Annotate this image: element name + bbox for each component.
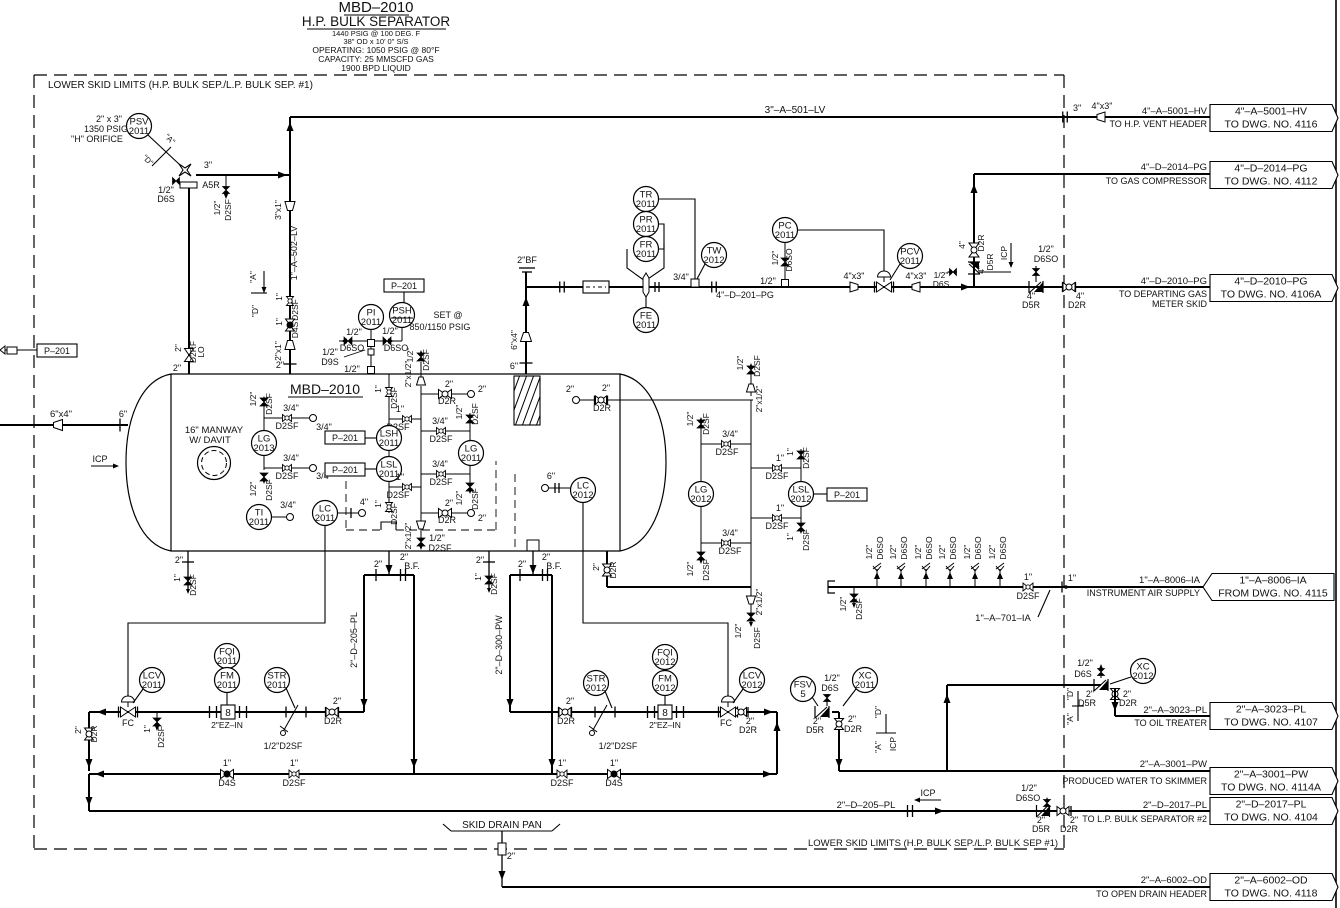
svg-text:D6S: D6S xyxy=(933,279,950,289)
drain 1/2in D2SF on PSV outlet xyxy=(225,175,227,196)
class break A/D marks xyxy=(263,271,265,293)
svg-text:1/2": 1/2" xyxy=(987,545,997,560)
svg-text:2011: 2011 xyxy=(461,453,481,464)
flange 6in at vessel gas nozzle xyxy=(520,362,533,364)
svg-text:D6SO: D6SO xyxy=(998,536,1008,560)
air takeoff 1/2in D6SO #2 xyxy=(900,569,902,587)
control valve LCV 2012 xyxy=(718,707,720,718)
cross row 1in D2SF lower xyxy=(389,486,421,488)
svg-text:D2SF: D2SF xyxy=(275,471,299,481)
svg-text:1": 1" xyxy=(558,758,566,768)
instrument LG 2013 xyxy=(252,431,277,456)
flange pair on 205-PL xyxy=(907,805,909,817)
instrument LC 2012 xyxy=(542,485,549,492)
thermowell TW connection 3/4in xyxy=(691,279,699,287)
pipe produced water y771 xyxy=(839,770,1210,772)
valve 1in D2SF top x389 xyxy=(386,388,393,397)
valve 1/2in D2SF below LG2011 xyxy=(469,466,471,493)
flange 2in at vessel nozzle xyxy=(284,363,297,365)
instrument LCV 2011 xyxy=(140,668,165,693)
svg-text:B.F.: B.F. xyxy=(546,561,562,571)
instrument FQI 2011 xyxy=(215,644,240,669)
pipe riser 4in x974 xyxy=(973,174,975,287)
pipe 2in-D-205-PL down leg x364 xyxy=(363,575,365,712)
svg-text:2"EZ–IN: 2"EZ–IN xyxy=(211,720,243,730)
svg-text:2": 2" xyxy=(445,498,453,508)
svg-text:D6S: D6S xyxy=(1074,669,1092,679)
BF header left xyxy=(364,574,414,576)
svg-text:1"–A–502–LV: 1"–A–502–LV xyxy=(289,226,299,281)
svg-text:TO H.P. VENT HEADER: TO H.P. VENT HEADER xyxy=(1109,119,1207,129)
svg-text:2": 2" xyxy=(602,383,610,393)
check valve 4in D5R xyxy=(1029,281,1043,293)
svg-text:D5R: D5R xyxy=(806,725,825,735)
svg-text:D4S: D4S xyxy=(218,778,236,788)
svg-text:2011: 2011 xyxy=(217,656,237,667)
air takeoff 1/2in D6SO #6 xyxy=(999,569,1001,587)
instrument FQI 2012 xyxy=(653,645,678,670)
svg-text:D2SF: D2SF xyxy=(470,488,480,510)
box P-201 to LSL2012 xyxy=(813,493,827,495)
valve 1in D2SF bottom x389 xyxy=(386,503,393,512)
air header 1in-A-701-IA xyxy=(828,586,1210,588)
standpipe LG 2013 xyxy=(263,398,265,431)
svg-text:D5R: D5R xyxy=(1022,300,1041,310)
svg-text:D2SF: D2SF xyxy=(282,778,306,788)
pipe drop to 3023-PL xyxy=(1114,688,1116,716)
skid limit border top xyxy=(34,74,1064,76)
instrument LCV 2012 xyxy=(740,668,765,693)
pipe 2in-D-300-PW down leg x510 xyxy=(509,575,511,712)
valve 1in D2SF above LSL2012 xyxy=(800,449,802,482)
svg-text:1/2": 1/2" xyxy=(405,348,415,363)
gauge valve block xyxy=(368,340,375,347)
instrument TI 2011 xyxy=(247,505,272,530)
instrument TW 2012 xyxy=(702,243,727,268)
instrument LSH 2011 xyxy=(377,426,402,451)
svg-text:D6SO: D6SO xyxy=(899,536,909,560)
svg-text:D6SO: D6SO xyxy=(924,536,934,560)
standpipe LG2012 left x701 xyxy=(700,420,702,482)
valve 1in D2SF on air header xyxy=(1023,583,1033,591)
svg-text:1": 1" xyxy=(396,404,404,414)
svg-text:8: 8 xyxy=(225,708,231,719)
flange pair on D-201-PG xyxy=(559,282,561,293)
corner x89 down xyxy=(88,712,90,771)
class break A/D diagonal ticks xyxy=(152,147,171,166)
svg-text:1/2": 1/2" xyxy=(1077,658,1093,668)
PSV inlet diagonal xyxy=(148,135,180,165)
drain 1/2in D2SF below x701 xyxy=(700,543,702,558)
svg-text:2012: 2012 xyxy=(741,680,762,691)
svg-text:1": 1" xyxy=(373,500,383,508)
svg-text:6": 6" xyxy=(510,361,518,371)
pipe open drain y887 xyxy=(502,886,1210,888)
svg-text:2": 2" xyxy=(175,555,183,565)
svg-text:2012: 2012 xyxy=(585,683,606,694)
flange pair before PC tap xyxy=(711,282,713,293)
svg-text:2011: 2011 xyxy=(249,517,269,528)
flag 4in-A-5001-HV TO DWG NO 4116 xyxy=(1210,105,1338,132)
valve 2in D2R right head drain xyxy=(606,551,608,587)
row 1in D2SF upper LSL2012 xyxy=(751,467,801,469)
svg-text:PRODUCED WATER TO SKIMMER: PRODUCED WATER TO SKIMMER xyxy=(1062,776,1207,786)
svg-text:A5R: A5R xyxy=(202,180,220,190)
flow arrow up at 501-LV corner xyxy=(287,122,294,131)
svg-text:"A": "A" xyxy=(1065,713,1075,725)
svg-text:1/2": 1/2" xyxy=(429,533,445,543)
svg-text:D2R: D2R xyxy=(1068,300,1087,310)
svg-text:3/4": 3/4" xyxy=(432,416,448,426)
control valve PCV 2011 xyxy=(874,282,876,293)
svg-text:D2SF: D2SF xyxy=(428,543,452,553)
valve 1/2in D6SO right xyxy=(383,337,391,345)
svg-text:2"–A–6002–OD: 2"–A–6002–OD xyxy=(1141,875,1207,886)
svg-text:3/4": 3/4" xyxy=(283,453,299,463)
svg-text:3/4": 3/4" xyxy=(280,500,296,510)
svg-text:"D": "D" xyxy=(1065,688,1075,700)
flow straightener xyxy=(583,281,609,293)
svg-text:1": 1" xyxy=(396,472,404,482)
svg-text:2": 2" xyxy=(445,379,453,389)
svg-text:2"–D–2017–PL: 2"–D–2017–PL xyxy=(1236,799,1307,811)
svg-text:D2R: D2R xyxy=(557,716,576,726)
box P-201 to LSL xyxy=(325,463,365,476)
svg-text:2"–D–300–PW: 2"–D–300–PW xyxy=(494,615,504,675)
reducer 6x4 inlet xyxy=(54,420,63,431)
instrument XC 2011 xyxy=(853,668,878,693)
svg-text:TO GAS COMPRESSOR: TO GAS COMPRESSOR xyxy=(1106,176,1208,186)
svg-text:D6SO: D6SO xyxy=(875,536,885,560)
instrument PI 2011 xyxy=(359,305,384,330)
svg-text:6"x4": 6"x4" xyxy=(50,409,72,420)
vessel MBD-2010 shell xyxy=(126,374,666,551)
svg-text:"H" ORIFICE: "H" ORIFICE xyxy=(71,134,123,144)
svg-text:850/1150 PSIG: 850/1150 PSIG xyxy=(410,322,471,332)
svg-text:6"x4": 6"x4" xyxy=(509,330,519,350)
pipe right leg x414 to drain header xyxy=(413,575,415,774)
svg-text:D2SF: D2SF xyxy=(1016,591,1040,601)
valve 1in D4S left xyxy=(221,770,234,779)
svg-text:1/2": 1/2" xyxy=(1038,244,1054,254)
dashed instrument boundary left bridle xyxy=(345,481,347,530)
strainer on oil train xyxy=(286,711,300,713)
svg-text:4"x3": 4"x3" xyxy=(906,271,927,281)
svg-text:2"BF: 2"BF xyxy=(517,255,537,265)
valve 1/2in D6S on FSV xyxy=(826,694,828,706)
pipe PSV outlet 3in xyxy=(196,174,290,176)
svg-text:TO DWG. NO. 4104: TO DWG. NO. 4104 xyxy=(1224,812,1318,824)
valve 1/2in D6SO left xyxy=(344,337,352,345)
svg-text:3"x1": 3"x1" xyxy=(273,200,283,220)
svg-text:TO OIL TREATER: TO OIL TREATER xyxy=(1134,718,1207,728)
svg-text:D4S: D4S xyxy=(290,321,300,338)
standpipe LG2012 right x751 xyxy=(750,400,752,590)
reducer 2x1/2 x751 top xyxy=(747,384,756,392)
svg-text:P–201: P–201 xyxy=(332,433,358,443)
pipe gas riser 6in x526 xyxy=(525,272,527,374)
svg-text:2"–A–6002–OD: 2"–A–6002–OD xyxy=(1234,875,1308,887)
reducer 4x3 on 5001-HV xyxy=(1097,112,1105,122)
svg-text:D6SO: D6SO xyxy=(1016,793,1041,803)
reducer 6x4 on riser xyxy=(521,333,532,342)
flag 2in-A-6002-OD TO DWG NO 4118 xyxy=(1210,874,1338,901)
standpipe LSH/LSL x389 xyxy=(388,374,390,426)
svg-text:D2SF: D2SF xyxy=(188,574,198,596)
valve 1in D2SF right xyxy=(557,770,567,778)
valve 1/2in D6S at PSV xyxy=(173,178,180,185)
check valve 2in D5R XC2012 xyxy=(1094,679,1108,691)
svg-text:1": 1" xyxy=(785,533,795,541)
signal PR to FR xyxy=(658,224,664,249)
svg-text:D2SF: D2SF xyxy=(718,546,742,556)
reducer 4x3 before PCV xyxy=(850,282,858,292)
svg-text:P–201: P–201 xyxy=(44,346,70,356)
svg-text:6": 6" xyxy=(119,409,127,419)
svg-text:1/2": 1/2" xyxy=(962,545,972,560)
svg-text:TO DWG. NO. 4106A: TO DWG. NO. 4106A xyxy=(1221,289,1322,301)
svg-text:TO DEPARTING GAS: TO DEPARTING GAS xyxy=(1119,289,1207,299)
svg-text:"A": "A" xyxy=(873,741,883,753)
riser x777 from drain header xyxy=(776,712,778,774)
valve 2in D2R x89 xyxy=(85,728,94,740)
strainer on water train xyxy=(594,707,596,718)
skid limit border right xyxy=(1063,75,1065,849)
svg-text:2" x 3": 2" x 3" xyxy=(96,114,122,124)
valve 1in D4S right xyxy=(608,770,621,779)
svg-text:D2SF: D2SF xyxy=(715,447,739,457)
svg-text:1/2": 1/2" xyxy=(733,624,743,639)
instrument LSL 2011 xyxy=(377,457,402,482)
svg-text:1/2": 1/2" xyxy=(212,201,222,216)
control valve LCV 2011 xyxy=(118,707,120,718)
svg-text:1900 BPD LIQUID: 1900 BPD LIQUID xyxy=(341,63,410,73)
svg-text:1/2": 1/2" xyxy=(322,347,338,357)
reducer 3x4 after PCV xyxy=(912,282,920,292)
svg-text:2011: 2011 xyxy=(379,438,399,449)
svg-text:D2SF: D2SF xyxy=(156,726,166,748)
check valve 2in D5R 2017 xyxy=(1037,805,1050,817)
valve 2in D2R corner x839 xyxy=(832,711,839,713)
svg-text:LOWER SKID LIMITS (H.P. BU: LOWER SKID LIMITS (H.P. BULK SEP./L.P. B… xyxy=(48,80,313,91)
skid limit border left xyxy=(33,75,35,849)
svg-text:ICP: ICP xyxy=(920,788,935,798)
svg-text:2011: 2011 xyxy=(636,249,656,260)
manway 16in with davit xyxy=(198,447,231,480)
svg-text:"D": "D" xyxy=(250,305,260,317)
drain 1in D2SF oil train xyxy=(156,712,158,728)
reducer 2x1/2 nozzle x421 xyxy=(417,377,426,385)
svg-text:D2SF: D2SF xyxy=(386,490,410,500)
svg-text:4"–A–5001–HV: 4"–A–5001–HV xyxy=(1235,106,1307,118)
instrument PSV 2011 xyxy=(127,114,152,139)
valve 2in D2R 2017 xyxy=(1057,807,1069,816)
svg-text:2011: 2011 xyxy=(855,680,875,691)
svg-text:D2SF: D2SF xyxy=(264,479,274,501)
svg-text:D2SF: D2SF xyxy=(752,355,762,377)
svg-text:2"x1/2": 2"x1/2" xyxy=(403,361,413,388)
flange below relief valve xyxy=(180,182,197,188)
svg-text:TO DWG. NO. 4107: TO DWG. NO. 4107 xyxy=(1224,717,1318,729)
vent valve 1/2in D2SF above x421 nozzle xyxy=(417,353,425,361)
pipe right leg x552 to drain header xyxy=(551,575,553,774)
class break A/D ICP marks water train xyxy=(876,732,896,734)
sump box middle drain xyxy=(527,540,539,551)
instrument FE 2011 xyxy=(645,297,647,308)
svg-text:P–201: P–201 xyxy=(332,465,358,475)
svg-text:D2SF: D2SF xyxy=(429,477,453,487)
svg-text:2011: 2011 xyxy=(217,680,237,691)
svg-text:2012: 2012 xyxy=(703,255,724,266)
flow arrow on D-201-PG xyxy=(961,284,970,291)
meter 2in EZ-IN xyxy=(209,706,211,718)
pipe bottom 205-PL y811 xyxy=(88,774,90,811)
pipe oil train y712 xyxy=(89,711,364,713)
valve 2in D2R after LCV2012 xyxy=(736,708,747,717)
svg-text:2": 2" xyxy=(566,384,574,394)
middle drain 2in 1in D2SF x489 xyxy=(488,551,490,591)
svg-text:D2SF: D2SF xyxy=(801,447,811,469)
svg-text:1/2": 1/2" xyxy=(838,597,848,612)
svg-text:4"–D–2010–PG: 4"–D–2010–PG xyxy=(1234,276,1307,288)
instrument FM 2011 xyxy=(215,668,240,693)
svg-text:2": 2" xyxy=(591,563,601,571)
svg-text:2"–D–2017–PL: 2"–D–2017–PL xyxy=(1143,800,1207,811)
svg-text:2": 2" xyxy=(173,363,181,373)
instrument PCV 2011 xyxy=(898,244,923,269)
svg-text:ICP: ICP xyxy=(92,454,107,464)
valve 2in D2R right head xyxy=(579,399,753,401)
svg-text:3/4": 3/4" xyxy=(722,528,738,538)
svg-text:MBD–2010: MBD–2010 xyxy=(290,381,360,397)
svg-text:1/2": 1/2" xyxy=(760,276,776,286)
svg-text:D5R: D5R xyxy=(1032,824,1051,834)
flag 4in-D-2014-PG TO DWG NO 4112 xyxy=(1210,162,1338,189)
svg-text:1": 1" xyxy=(776,503,784,513)
instrument LSL 2012 xyxy=(789,482,814,507)
relief valve A5R body xyxy=(179,164,191,176)
svg-text:2"–A–3001–PW: 2"–A–3001–PW xyxy=(1234,769,1308,781)
svg-text:FC: FC xyxy=(720,718,732,728)
FR funnel to orifice xyxy=(627,243,664,281)
svg-text:D2SF: D2SF xyxy=(429,434,453,444)
svg-text:2011: 2011 xyxy=(267,680,287,691)
vent valve 1/2in D2SF x701 xyxy=(697,420,705,428)
valve 2in D2R XC2012 xyxy=(1111,689,1120,700)
svg-text:3/4": 3/4" xyxy=(722,429,738,439)
svg-text:2"–A–3023–PL: 2"–A–3023–PL xyxy=(1236,704,1306,716)
vessel connection 1/2in xyxy=(368,367,375,374)
svg-text:1": 1" xyxy=(223,758,231,768)
svg-text:2012: 2012 xyxy=(690,494,711,505)
check valve 4in D5R on riser xyxy=(968,262,980,274)
svg-text:2011: 2011 xyxy=(142,680,162,691)
svg-text:6": 6" xyxy=(547,471,555,481)
svg-text:2011: 2011 xyxy=(129,126,149,137)
valve 4in D2R xyxy=(1062,282,1064,292)
row 3/4in D2SF bottom LG2012 xyxy=(701,542,751,544)
svg-text:D2SF: D2SF xyxy=(854,598,864,620)
label lower skid limits bottom xyxy=(806,836,1060,846)
flag 2in-D-2017-PL TO DWG NO 4104 xyxy=(1210,798,1338,825)
svg-text:D2SF: D2SF xyxy=(421,349,431,371)
svg-text:D2R: D2R xyxy=(844,724,863,734)
svg-text:TO DWG. NO. 4116: TO DWG. NO. 4116 xyxy=(1225,119,1318,131)
valve 1in D2SF below LSL2012 xyxy=(800,506,802,531)
gauge row 3/4in D2SF upper xyxy=(264,417,310,419)
svg-text:TO OPEN DRAIN HEADER: TO OPEN DRAIN HEADER xyxy=(1096,889,1207,899)
pipe 4in-D-201-PG xyxy=(526,286,1210,288)
svg-text:2011: 2011 xyxy=(361,317,381,328)
svg-text:D2R: D2R xyxy=(739,725,758,735)
pipe riser x290 to vessel xyxy=(289,117,291,374)
svg-text:1/2": 1/2" xyxy=(454,491,464,506)
svg-text:1/2": 1/2" xyxy=(1021,783,1037,793)
svg-text:D2R: D2R xyxy=(324,716,343,726)
svg-text:2"–A–3023–PL: 2"–A–3023–PL xyxy=(1143,705,1207,716)
air takeoff 1/2in D6SO #3 xyxy=(925,569,927,587)
box P-201 above PSH xyxy=(384,279,424,292)
valve 1/2in D2SF top LG2013 xyxy=(260,398,268,406)
drain header y774 xyxy=(89,773,777,775)
signal LC2012 to LCV2012 xyxy=(583,503,728,697)
svg-text:D9S: D9S xyxy=(321,357,339,367)
instrument LC 2011 xyxy=(313,501,338,526)
svg-text:LO: LO xyxy=(196,346,206,358)
svg-text:2"x1/2": 2"x1/2" xyxy=(754,589,764,616)
svg-text:2"EZ–IN: 2"EZ–IN xyxy=(649,720,681,730)
svg-text:D2R: D2R xyxy=(1060,824,1079,834)
svg-text:FROM DWG. NO. 4115: FROM DWG. NO. 4115 xyxy=(1218,588,1328,600)
svg-text:2"–D–205–PL: 2"–D–205–PL xyxy=(349,612,359,668)
instrument XC 2012 xyxy=(1131,659,1156,684)
valve 4in D2R on riser xyxy=(969,243,979,257)
pipe water train y712 xyxy=(510,711,777,713)
label 3in-A-501-LV xyxy=(746,104,846,116)
svg-text:2": 2" xyxy=(374,559,382,569)
flag 2in-A-3001-PW TO DWG NO 4114A xyxy=(1210,768,1338,795)
svg-text:1": 1" xyxy=(142,725,152,733)
svg-text:1"–A–8006–IA: 1"–A–8006–IA xyxy=(1139,575,1201,586)
svg-text:D2R: D2R xyxy=(608,561,618,578)
orifice FE xyxy=(643,273,649,297)
instrument PSH 2011 xyxy=(390,303,415,328)
dashed boundary x515 xyxy=(514,474,516,551)
instrument PC 2011 xyxy=(773,218,798,243)
svg-text:"A": "A" xyxy=(248,271,258,283)
reducer 3x1 on A-502-LV xyxy=(285,202,295,211)
pipe 3in-A-501-LV horizontal xyxy=(290,116,1210,118)
svg-text:2011: 2011 xyxy=(315,513,335,524)
svg-text:1": 1" xyxy=(274,293,284,301)
svg-text:2": 2" xyxy=(476,555,484,565)
instrument LG 2012 xyxy=(689,482,714,507)
svg-text:1/2": 1/2" xyxy=(344,364,360,374)
svg-text:1"–A–8006–IA: 1"–A–8006–IA xyxy=(1239,575,1306,587)
tap 1/2in D6SO for PC xyxy=(784,242,786,283)
svg-text:2"x1/2": 2"x1/2" xyxy=(403,523,413,550)
svg-text:2012: 2012 xyxy=(1132,671,1153,682)
svg-text:1": 1" xyxy=(1024,572,1032,582)
valve 1/2in D2SF drain x421 xyxy=(420,529,422,548)
svg-text:D2R: D2R xyxy=(438,515,457,525)
svg-text:4"–D–2014–PG: 4"–D–2014–PG xyxy=(1141,162,1207,173)
skid limit border bottom xyxy=(34,848,1064,850)
valve 2in D2R oil train xyxy=(325,707,327,717)
check valve FSV 2in D5R xyxy=(815,706,829,718)
svg-text:SET @: SET @ xyxy=(434,310,463,320)
svg-text:METER SKID: METER SKID xyxy=(1152,299,1208,309)
